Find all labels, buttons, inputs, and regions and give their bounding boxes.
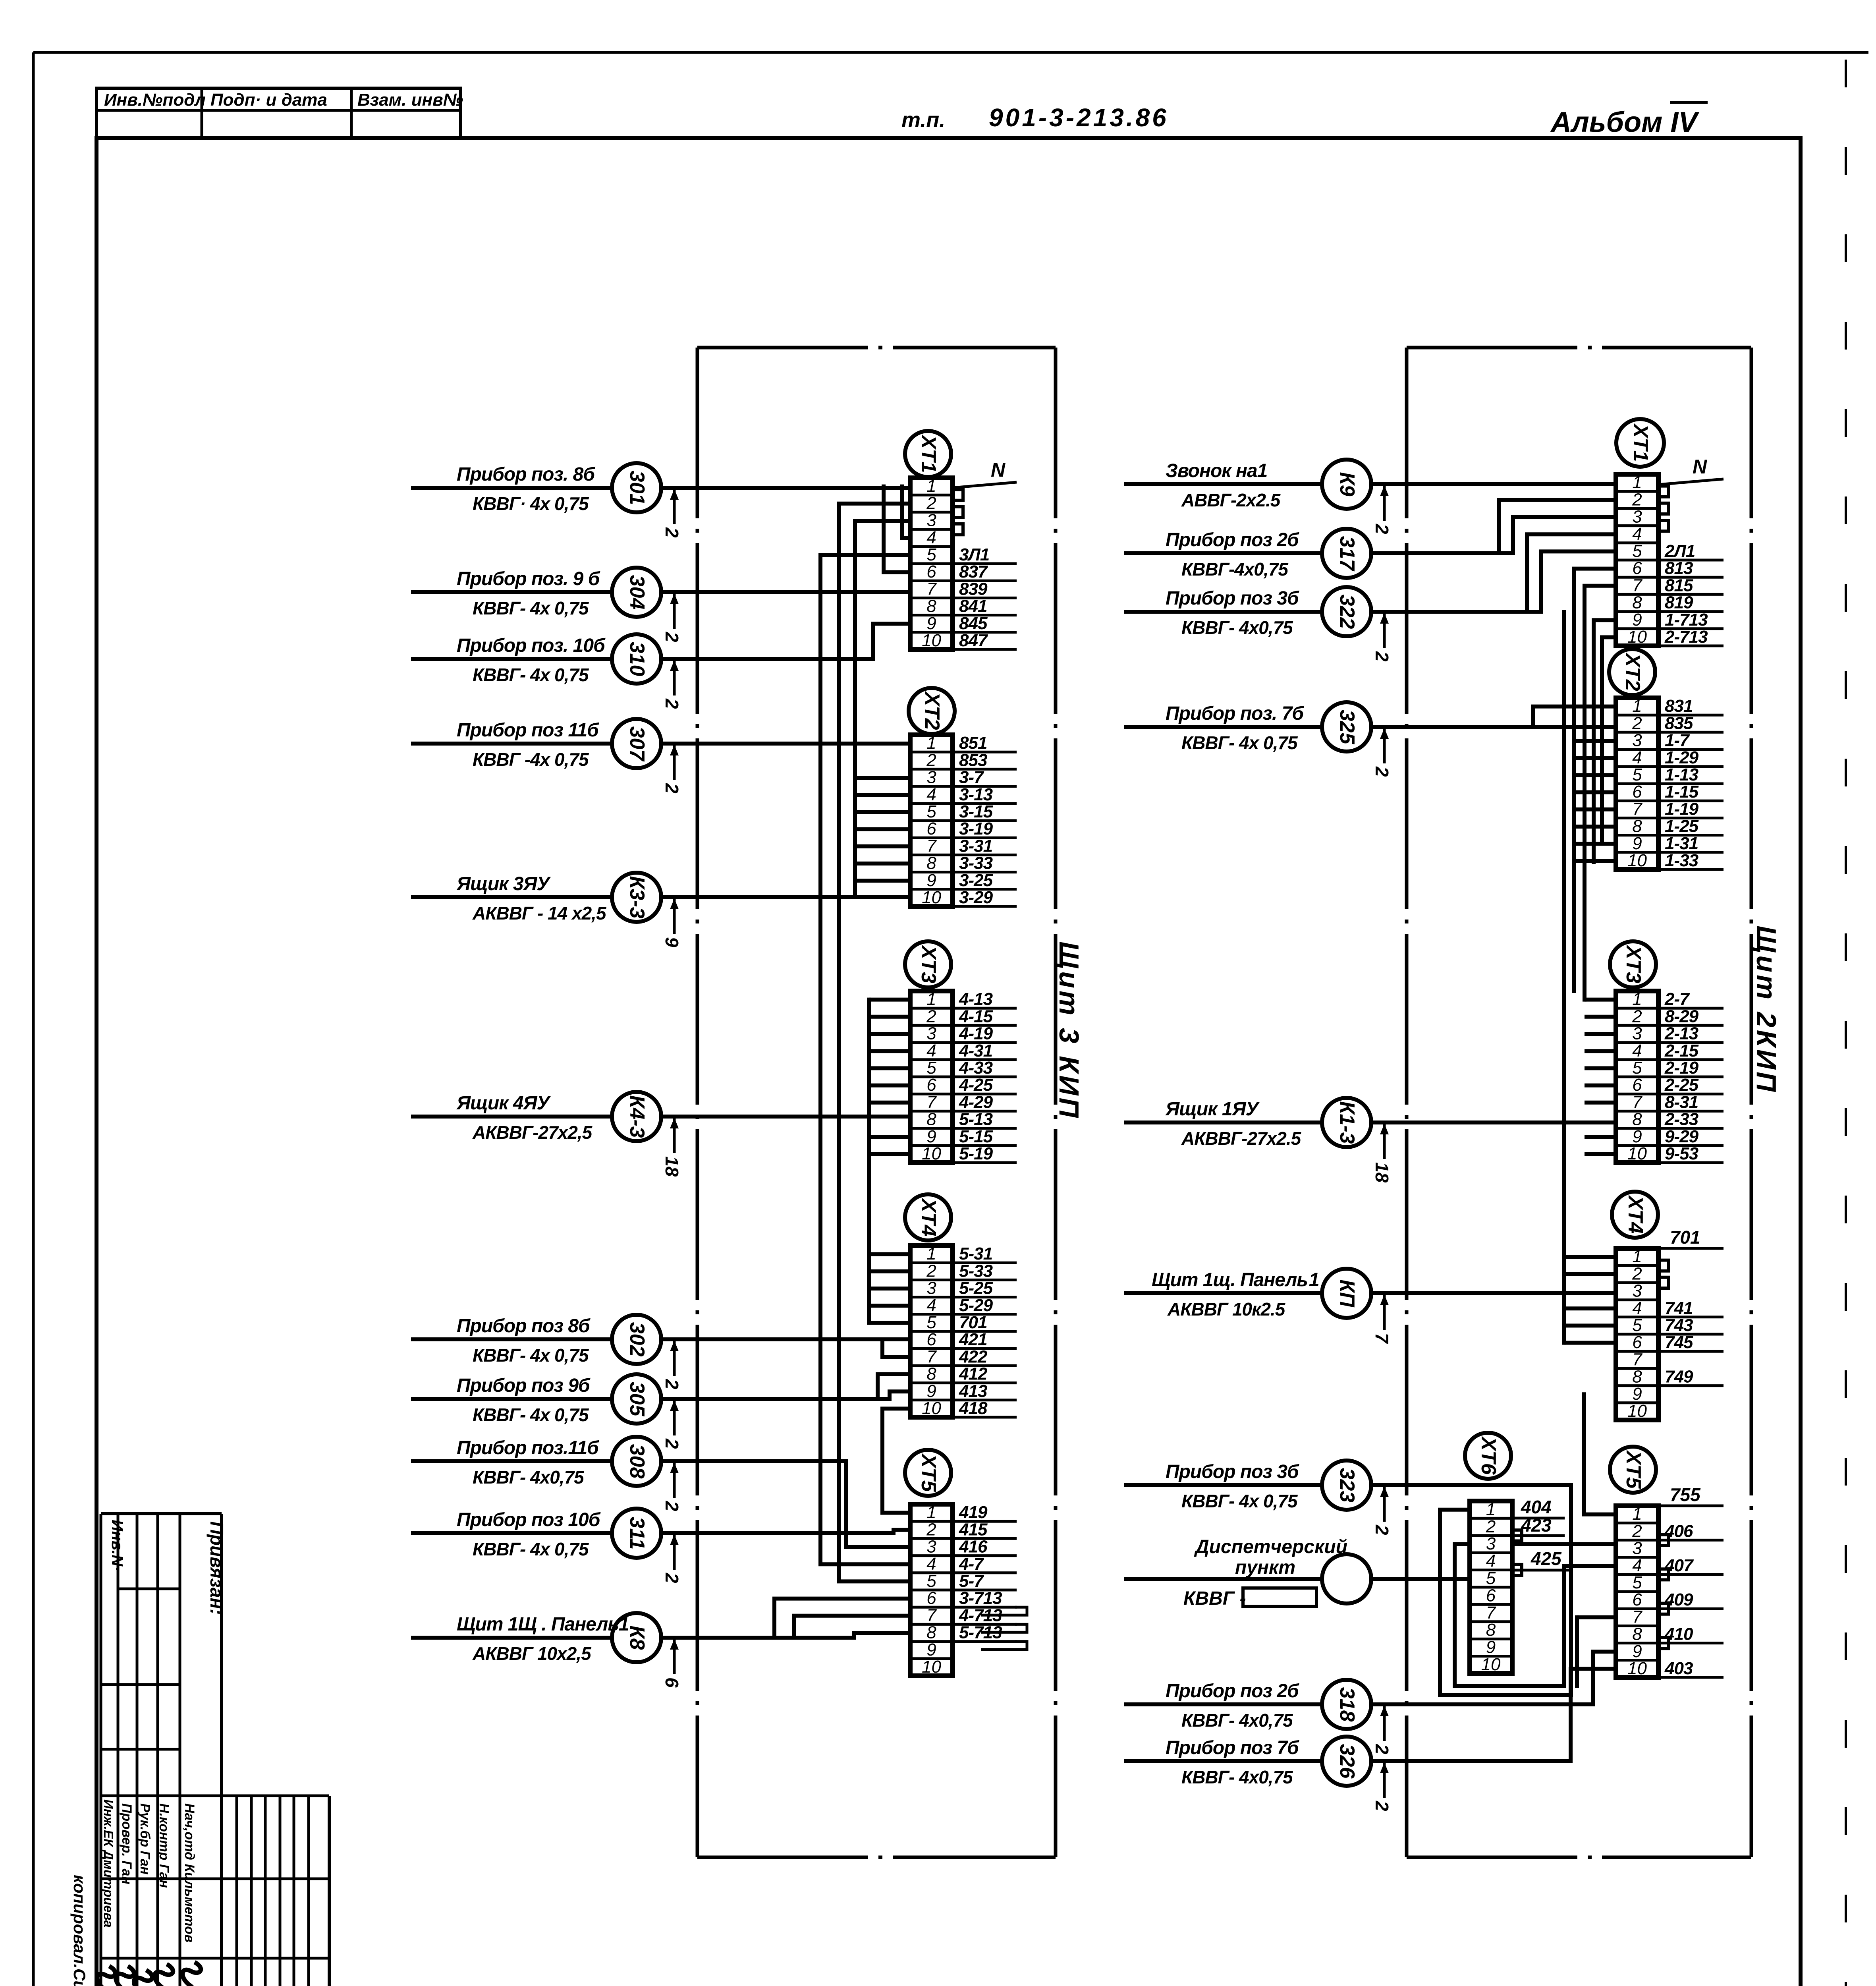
svg-text:10: 10 — [922, 1144, 941, 1163]
caption Альбом IV — [1550, 102, 1708, 138]
svg-text:2: 2 — [1632, 1521, 1642, 1541]
svg-text:Прибор поз 8б: Прибор поз 8б — [457, 1316, 591, 1337]
svg-text:701: 701 — [959, 1313, 987, 1332]
svg-text:Прибор поз 11б: Прибор поз 11б — [457, 720, 599, 741]
svg-text:845: 845 — [959, 614, 988, 633]
svg-text:2: 2 — [1632, 490, 1642, 509]
svg-text:4-19: 4-19 — [959, 1024, 993, 1043]
svg-text:5: 5 — [1632, 765, 1642, 784]
panel label Щит 3 КИП — [1054, 941, 1085, 1120]
svg-text:3-25: 3-25 — [959, 871, 993, 890]
svg-text:2-13: 2-13 — [1664, 1024, 1698, 1043]
svg-text:АКВВГ 10х2,5: АКВВГ 10х2,5 — [472, 1643, 592, 1664]
svg-text:4-15: 4-15 — [959, 1007, 993, 1026]
panel enclosure Щит 2 КИП (right, dash-dot boundary) — [1407, 348, 1751, 1857]
svg-text:XT4: XT4 — [917, 1197, 940, 1236]
cable 308 Прибор поз.11б — [411, 1437, 910, 1547]
cable 310 Прибор поз.10б — [411, 624, 910, 709]
svg-text:Прибор поз. 8б: Прибор поз. 8б — [457, 464, 595, 485]
svg-text:XT5: XT5 — [1622, 1449, 1645, 1489]
svg-text:413: 413 — [959, 1381, 987, 1401]
svg-text:422: 422 — [959, 1347, 988, 1366]
svg-text:3: 3 — [1632, 1281, 1642, 1301]
svg-text:7: 7 — [1486, 1603, 1496, 1623]
svg-text:Взам. инв№: Взам. инв№ — [357, 90, 463, 110]
panel enclosure Щит 3 КИП (left, dash-dot boundary) — [697, 348, 1056, 1857]
svg-text:326: 326 — [1336, 1744, 1359, 1779]
svg-text:8: 8 — [926, 854, 936, 873]
svg-text:1: 1 — [1632, 989, 1642, 1009]
svg-text:6: 6 — [1632, 1333, 1642, 1352]
caption т.п. — [901, 108, 945, 132]
svg-text:Н.контр Ган: Н.контр Ган — [156, 1803, 172, 1888]
svg-text:5: 5 — [926, 545, 936, 564]
rotated name Н.контр Ган — [156, 1803, 172, 1888]
svg-text:819: 819 — [1665, 593, 1693, 612]
svg-text:пункт: пункт — [1235, 1557, 1295, 1578]
svg-text:323: 323 — [1336, 1468, 1359, 1503]
svg-text:1-15: 1-15 — [1665, 782, 1699, 802]
table header Взам. инв № — [357, 90, 463, 110]
svg-text:XT5: XT5 — [917, 1453, 940, 1492]
svg-text:3-713: 3-713 — [959, 1588, 1002, 1608]
svg-text:1-31: 1-31 — [1665, 834, 1698, 853]
svg-text:4-25: 4-25 — [959, 1075, 993, 1095]
svg-text:305: 305 — [625, 1382, 648, 1417]
bracket hook on XT5-left label row 7 — [982, 1624, 1027, 1632]
terminal block XT4 (right panel) — [1612, 1192, 1724, 1421]
terminal block XT2 (right panel) — [1609, 649, 1724, 870]
svg-text:1-29: 1-29 — [1665, 748, 1699, 767]
margin text копировал Синичкина — [70, 1875, 89, 1986]
svg-text:4: 4 — [1632, 524, 1642, 544]
svg-text:XT2: XT2 — [1621, 652, 1644, 691]
svg-text:418: 418 — [959, 1399, 988, 1418]
svg-text:5-31: 5-31 — [959, 1244, 992, 1263]
svg-text:10: 10 — [922, 631, 941, 650]
svg-text:2: 2 — [1372, 651, 1392, 662]
svg-text:КВВГ- 4х0,75: КВВГ- 4х0,75 — [1181, 1767, 1293, 1787]
wire bus group left of XT1 (vertical risers) — [820, 487, 910, 1582]
panel label Щит 2КИП — [1751, 925, 1782, 1094]
svg-text:2: 2 — [662, 1379, 682, 1389]
svg-text:К8: К8 — [625, 1626, 648, 1650]
svg-text:Инж.ЕК Дмитриева: Инж.ЕК Дмитриева — [101, 1799, 116, 1928]
svg-text:копировал.Синичкина: копировал.Синичкина — [70, 1875, 89, 1986]
svg-text:7: 7 — [926, 1347, 937, 1366]
cable 301 Прибор поз.8б — [411, 463, 910, 538]
svg-text:1-25: 1-25 — [1665, 817, 1699, 836]
svg-text:8: 8 — [1632, 817, 1642, 836]
svg-text:8: 8 — [926, 597, 936, 616]
svg-text:КВВГ- 4х 0,75: КВВГ- 4х 0,75 — [1181, 732, 1298, 753]
svg-text:4: 4 — [1632, 748, 1642, 767]
svg-text:6: 6 — [1486, 1586, 1496, 1605]
svg-text:Прибор поз. 9 б: Прибор поз. 9 б — [457, 568, 600, 589]
svg-text:415: 415 — [959, 1520, 988, 1539]
svg-text:Прибор поз 3б: Прибор поз 3б — [1166, 1461, 1299, 1482]
svg-text:Ящик 4ЯУ: Ящик 4ЯУ — [456, 1093, 551, 1114]
signature table grid (rotated stamp upper part) — [101, 1514, 329, 1986]
cable 325 Прибор поз.7б — [1124, 702, 1616, 777]
svg-text:3: 3 — [1632, 507, 1642, 527]
svg-text:847: 847 — [959, 631, 988, 650]
svg-text:6: 6 — [926, 562, 936, 582]
svg-text:6: 6 — [1632, 1075, 1642, 1095]
svg-text:Прибор поз. 10б: Прибор поз. 10б — [457, 635, 606, 656]
svg-text:3Л1: 3Л1 — [959, 545, 989, 564]
svg-text:5: 5 — [1632, 1316, 1642, 1335]
cable Диспетчерский пункт — [1124, 1536, 1470, 1609]
svg-text:КВВГ· 4х 0,75: КВВГ· 4х 0,75 — [473, 493, 589, 514]
svg-text:Щит 3 КИП: Щит 3 КИП — [1054, 941, 1085, 1120]
svg-text:4-7: 4-7 — [959, 1554, 984, 1574]
svg-text:2: 2 — [926, 750, 936, 770]
svg-text:841: 841 — [959, 597, 987, 616]
svg-text:8-31: 8-31 — [1665, 1092, 1698, 1112]
svg-text:КВВГ -4х 0,75: КВВГ -4х 0,75 — [473, 749, 589, 770]
svg-text:XT6: XT6 — [1477, 1435, 1500, 1475]
svg-text:2: 2 — [1632, 1264, 1642, 1283]
wire comb into XT4 right — [1564, 612, 1616, 1343]
svg-text:К3-3: К3-3 — [625, 876, 648, 918]
terminal block XT6 (right panel) — [1465, 1433, 1573, 1674]
svg-text:815: 815 — [1665, 576, 1693, 595]
svg-text:XT1: XT1 — [1629, 423, 1652, 462]
svg-text:XT2: XT2 — [921, 691, 944, 730]
svg-text:5-25: 5-25 — [959, 1279, 993, 1298]
svg-text:6: 6 — [1632, 558, 1642, 578]
svg-text:1: 1 — [926, 733, 936, 753]
svg-text:Прибор поз.11б: Прибор поз.11б — [457, 1437, 599, 1459]
svg-text:1: 1 — [926, 1244, 936, 1263]
svg-text:322: 322 — [1336, 595, 1359, 629]
svg-text:9: 9 — [1632, 610, 1642, 630]
svg-text:3: 3 — [1486, 1534, 1496, 1553]
svg-text:КВВГ- 4х0,75: КВВГ- 4х0,75 — [1181, 617, 1293, 638]
svg-text:АКВВГ-27х2,5: АКВВГ-27х2,5 — [472, 1122, 593, 1143]
svg-text:5-19: 5-19 — [959, 1144, 993, 1163]
svg-text:743: 743 — [1665, 1316, 1693, 1335]
svg-text:423: 423 — [1521, 1515, 1552, 1536]
svg-text:2: 2 — [926, 1007, 936, 1026]
svg-text:8-29: 8-29 — [1665, 1007, 1699, 1026]
label N on XT1 right — [1658, 456, 1724, 485]
svg-text:Ящик 1ЯУ: Ящик 1ЯУ — [1165, 1099, 1260, 1120]
svg-text:416: 416 — [959, 1537, 988, 1557]
svg-text:2: 2 — [1372, 766, 1392, 777]
svg-text:10: 10 — [922, 888, 941, 907]
svg-text:2: 2 — [1372, 1744, 1392, 1754]
svg-text:325: 325 — [1336, 710, 1359, 745]
svg-text:10: 10 — [1627, 1144, 1647, 1163]
svg-text:2: 2 — [926, 1520, 936, 1539]
svg-text:301: 301 — [625, 471, 648, 505]
svg-text:2: 2 — [662, 1438, 682, 1449]
svg-text:6: 6 — [1632, 782, 1642, 802]
cable 307 Прибор поз 11б — [411, 719, 910, 794]
svg-text:Прибор поз 2б: Прибор поз 2б — [1166, 1681, 1299, 1702]
svg-text:2: 2 — [1372, 1524, 1392, 1535]
bracket hook on XT5-left label row 6 — [982, 1607, 1027, 1615]
svg-text:4: 4 — [926, 528, 936, 547]
svg-text:7: 7 — [1632, 1092, 1642, 1112]
svg-text:7: 7 — [926, 836, 937, 856]
svg-text:8: 8 — [926, 1364, 936, 1384]
cable КП Щит 1Щ Панель1 — [1124, 1269, 1616, 1344]
cable 302 Прибор поз 8б — [411, 1315, 910, 1389]
svg-text:3: 3 — [1632, 1024, 1642, 1043]
svg-text:6: 6 — [926, 819, 936, 838]
svg-text:5: 5 — [926, 1571, 936, 1591]
svg-text:3-15: 3-15 — [959, 802, 993, 821]
caption 901-3-213.86 — [989, 103, 1169, 132]
cable К3-3 Ящик 3ЯУ — [411, 873, 910, 947]
svg-text:4-33: 4-33 — [959, 1058, 993, 1078]
svg-text:4: 4 — [926, 785, 936, 804]
svg-text:9: 9 — [926, 614, 936, 633]
svg-text:КВВГ -: КВВГ - — [1183, 1588, 1246, 1609]
svg-text:9: 9 — [926, 1127, 936, 1146]
cable 323 Прибор поз 3б — [1124, 1461, 1571, 1695]
svg-text:2: 2 — [926, 1261, 936, 1281]
cable К4-3 Ящик 4ЯУ — [411, 1092, 910, 1177]
svg-text:10: 10 — [922, 1399, 941, 1418]
svg-text:1: 1 — [1632, 1504, 1642, 1524]
svg-text:5: 5 — [1632, 1058, 1642, 1078]
wire comb into XT3 right — [1585, 1000, 1616, 1154]
svg-text:9: 9 — [662, 937, 682, 947]
svg-text:Щит 1Щ . Панель1: Щит 1Щ . Панель1 — [457, 1614, 629, 1635]
svg-text:5-15: 5-15 — [959, 1127, 993, 1146]
svg-text:3: 3 — [926, 1537, 936, 1557]
rotated text Привязан: — [207, 1521, 227, 1615]
svg-text:745: 745 — [1665, 1333, 1693, 1352]
svg-text:8: 8 — [1632, 1110, 1642, 1129]
svg-text:Инв.№подл: Инв.№подл — [104, 90, 206, 110]
terminal block XT3 (left panel) — [905, 941, 1017, 1163]
svg-text:412: 412 — [959, 1364, 988, 1384]
svg-text:КВВГ- 4х 0,75: КВВГ- 4х 0,75 — [473, 1404, 589, 1425]
svg-text:2: 2 — [662, 698, 682, 709]
svg-text:КВВГ- 4х 0,75: КВВГ- 4х 0,75 — [473, 665, 589, 685]
svg-text:4: 4 — [1632, 1041, 1642, 1061]
svg-text:5-33: 5-33 — [959, 1261, 993, 1281]
svg-text:Прибор поз. 7б: Прибор поз. 7б — [1166, 703, 1304, 724]
svg-text:2: 2 — [1372, 524, 1392, 534]
svg-text:10: 10 — [1627, 851, 1647, 870]
svg-text:4-31: 4-31 — [959, 1041, 992, 1061]
svg-text:2-713: 2-713 — [1664, 627, 1708, 647]
svg-text:317: 317 — [1336, 536, 1359, 572]
svg-text:7: 7 — [1632, 1607, 1642, 1627]
svg-text:КВВГ- 4х 0,75: КВВГ- 4х 0,75 — [473, 1345, 589, 1366]
svg-text:3: 3 — [1632, 731, 1642, 750]
svg-text:8: 8 — [1632, 1367, 1642, 1387]
svg-text:8: 8 — [1632, 593, 1642, 612]
svg-text:1-33: 1-33 — [1665, 851, 1698, 870]
svg-text:5: 5 — [1632, 1573, 1642, 1592]
table header Подп. и дата — [210, 90, 327, 110]
svg-text:311: 311 — [625, 1517, 648, 1550]
svg-text:9-29: 9-29 — [1665, 1127, 1699, 1146]
svg-text:9: 9 — [926, 871, 936, 890]
svg-text:2: 2 — [662, 527, 682, 538]
scan edge dashes right — [1845, 60, 1847, 1986]
svg-text:4: 4 — [1632, 1556, 1642, 1575]
svg-text:2: 2 — [926, 493, 936, 513]
svg-text:18: 18 — [1372, 1162, 1392, 1183]
svg-text:10: 10 — [1481, 1655, 1501, 1674]
svg-text:813: 813 — [1665, 558, 1693, 578]
svg-text:3-19: 3-19 — [959, 819, 993, 838]
svg-text:7: 7 — [926, 579, 937, 599]
svg-text:XT4: XT4 — [1624, 1194, 1647, 1233]
bracket hook on XT5-left label row 8 — [982, 1642, 1027, 1650]
svg-text:7: 7 — [926, 1092, 937, 1112]
cable К1-3 Ящик 1ЯУ — [1124, 1098, 1616, 1183]
svg-text:10: 10 — [1627, 1659, 1647, 1678]
table header Инв.№подл — [104, 90, 206, 110]
svg-text:4: 4 — [926, 1554, 936, 1574]
svg-text:403: 403 — [1664, 1659, 1693, 1678]
svg-text:1: 1 — [1632, 696, 1642, 716]
svg-text:1: 1 — [1486, 1499, 1496, 1519]
svg-text:9: 9 — [1632, 1127, 1642, 1146]
svg-text:2-25: 2-25 — [1664, 1075, 1699, 1095]
svg-text:3-33: 3-33 — [959, 854, 993, 873]
svg-text:Нач,отд Кильметов: Нач,отд Кильметов — [182, 1803, 197, 1943]
svg-text:2-19: 2-19 — [1664, 1058, 1699, 1078]
svg-text:7: 7 — [1632, 576, 1642, 595]
svg-text:9: 9 — [1486, 1638, 1496, 1657]
cable 304 Прибор поз.9б — [411, 568, 910, 642]
rotated name Нач.отд Кильметов — [182, 1803, 197, 1943]
svg-text:Инв.N·: Инв.N· — [108, 1520, 126, 1571]
svg-text:Ящик 3ЯУ: Ящик 3ЯУ — [456, 873, 551, 894]
svg-text:АКВВГ-27х2.5: АКВВГ-27х2.5 — [1181, 1128, 1302, 1149]
svg-text:КВВГ- 4х0,75: КВВГ- 4х0,75 — [473, 1467, 585, 1488]
svg-text:10: 10 — [922, 1657, 941, 1677]
wire XT4 row10 to XT5 row1 — [882, 1408, 910, 1513]
wire bus group right panel XT1/XT2 — [1574, 569, 1616, 1000]
terminal block XT2 (left panel) — [909, 688, 1017, 907]
terminal block XT1 (right panel) — [1616, 419, 1724, 647]
svg-text:4-29: 4-29 — [959, 1092, 993, 1112]
svg-text:3: 3 — [926, 511, 936, 530]
svg-text:2: 2 — [662, 1573, 682, 1583]
svg-text:Рук.бр Ган: Рук.бр Ган — [137, 1803, 152, 1874]
label 755 on XT5 right — [1658, 1484, 1724, 1506]
svg-text:7: 7 — [1632, 799, 1642, 819]
wire comb into XT2 left — [855, 778, 910, 897]
svg-text:7: 7 — [926, 1605, 937, 1625]
svg-text:837: 837 — [959, 562, 988, 582]
rotated name Провер. Ган — [119, 1803, 134, 1884]
svg-text:5-13: 5-13 — [959, 1110, 993, 1129]
svg-text:АКВВГ 10к2.5: АКВВГ 10к2.5 — [1167, 1299, 1286, 1319]
svg-text:К1-3: К1-3 — [1336, 1101, 1359, 1144]
svg-text:419: 419 — [959, 1503, 988, 1522]
svg-text:3: 3 — [1632, 1539, 1642, 1558]
svg-text:18: 18 — [662, 1156, 682, 1177]
svg-text:835: 835 — [1665, 713, 1693, 733]
svg-text:АВВГ-2х2.5: АВВГ-2х2.5 — [1181, 490, 1281, 510]
svg-text:1: 1 — [1632, 1247, 1642, 1266]
svg-text:901-3-213.86: 901-3-213.86 — [989, 103, 1169, 132]
terminal block XT5 (right panel) — [1610, 1447, 1724, 1678]
svg-text:302: 302 — [625, 1322, 648, 1357]
svg-text:КП: КП — [1336, 1279, 1359, 1308]
cable 311 Прибор поз 10б — [411, 1509, 910, 1583]
svg-text:6: 6 — [1632, 1590, 1642, 1609]
svg-text:741: 741 — [1665, 1298, 1693, 1318]
svg-text:Прибор поз 7б: Прибор поз 7б — [1166, 1737, 1299, 1758]
svg-text:9: 9 — [1632, 1384, 1642, 1404]
cable 317 Прибор поз 2б — [1124, 500, 1616, 580]
svg-text:2-33: 2-33 — [1664, 1110, 1698, 1129]
cable 322 Прибор поз 3б — [1124, 534, 1616, 662]
svg-text:Привязан:: Привязан: — [207, 1521, 227, 1615]
svg-text:2: 2 — [662, 1501, 682, 1511]
svg-text:308: 308 — [625, 1444, 648, 1479]
svg-text:8: 8 — [1486, 1620, 1496, 1640]
svg-text:6: 6 — [662, 1677, 682, 1688]
svg-text:1-713: 1-713 — [1665, 610, 1708, 630]
svg-text:3-29: 3-29 — [959, 888, 993, 907]
svg-text:АКВВГ - 14 х2,5: АКВВГ - 14 х2,5 — [472, 903, 607, 923]
svg-text:2: 2 — [662, 632, 682, 642]
top-left inventory table — [97, 88, 461, 138]
svg-text:К4-3: К4-3 — [625, 1095, 648, 1138]
rotated text Инв.N — [108, 1520, 126, 1571]
svg-text:КВВГ- 4х0,75: КВВГ- 4х0,75 — [1181, 1710, 1293, 1731]
svg-text:307: 307 — [625, 726, 648, 762]
svg-text:755: 755 — [1670, 1484, 1701, 1505]
svg-text:310: 310 — [625, 642, 648, 676]
svg-text:2-15: 2-15 — [1664, 1041, 1699, 1061]
svg-text:3: 3 — [926, 768, 936, 787]
svg-text:N: N — [991, 459, 1006, 481]
svg-text:8: 8 — [926, 1623, 936, 1642]
svg-text:3: 3 — [926, 1024, 936, 1043]
cable 318 Прибор поз 2б — [1124, 1652, 1616, 1754]
svg-text:6: 6 — [926, 1330, 936, 1349]
label N on XT1 left — [953, 459, 1017, 488]
svg-text:т.п.: т.п. — [901, 108, 945, 132]
svg-text:421: 421 — [959, 1330, 987, 1349]
svg-text:4: 4 — [926, 1296, 936, 1315]
svg-text:304: 304 — [625, 575, 648, 610]
svg-text:2: 2 — [1372, 1801, 1392, 1811]
svg-text:9: 9 — [1632, 1642, 1642, 1661]
svg-text:Прибор поз 3б: Прибор поз 3б — [1166, 588, 1299, 609]
svg-text:749: 749 — [1665, 1367, 1693, 1387]
terminal block XT4 (left panel) — [905, 1194, 1017, 1418]
svg-text:Альбом IV: Альбом IV — [1550, 106, 1700, 138]
svg-text:10: 10 — [1627, 1401, 1647, 1421]
wire group XT6 to XT5 right — [1455, 1394, 1616, 1686]
svg-text:КВВГ- 4х 0,75: КВВГ- 4х 0,75 — [473, 598, 589, 618]
svg-text:1-13: 1-13 — [1665, 765, 1698, 784]
svg-text:Щит 1щ. Панель 1: Щит 1щ. Панель 1 — [1152, 1269, 1319, 1291]
svg-text:Звонок на1: Звонок на1 — [1166, 460, 1267, 481]
signature squiggles — [93, 1962, 201, 1986]
svg-text:2: 2 — [1632, 1007, 1642, 1026]
svg-text:5: 5 — [1486, 1569, 1496, 1588]
svg-text:XT3: XT3 — [1622, 944, 1645, 983]
svg-text:318: 318 — [1336, 1687, 1359, 1722]
